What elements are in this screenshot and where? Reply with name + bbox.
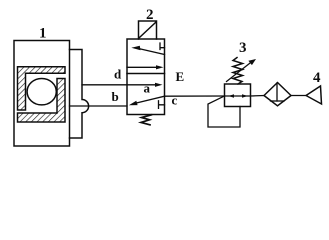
valve position divider xyxy=(127,73,165,75)
valve top position diagonal arrow xyxy=(138,48,165,54)
svg-text:c: c xyxy=(172,93,178,108)
valve actuator plunger 2 xyxy=(139,21,157,39)
ball workpiece xyxy=(27,79,56,105)
svg-text:2: 2 xyxy=(146,7,154,23)
wire: regulator to filter xyxy=(251,95,265,98)
valve bottom position horizontal arrow (d to E) xyxy=(127,84,156,86)
regulator pilot loop xyxy=(208,96,240,127)
svg-text:4: 4 xyxy=(313,70,321,86)
regulator left arrowhead xyxy=(228,94,234,98)
regulator spring xyxy=(233,58,243,85)
valve top blocked port xyxy=(160,43,165,50)
air source triangle 4 xyxy=(306,86,322,104)
wire b xyxy=(70,105,128,107)
regulator right arrowhead xyxy=(242,94,248,98)
regulator internal flow line xyxy=(225,95,251,97)
svg-text:1: 1 xyxy=(39,26,47,42)
clamp top hatched jaw xyxy=(18,67,66,110)
clamp bottom hatched jaw xyxy=(18,79,66,123)
svg-text:a: a xyxy=(144,81,151,96)
valve return spring xyxy=(141,115,152,125)
valve top position horizontal arrow xyxy=(127,66,157,68)
clamp manifold block xyxy=(70,50,89,139)
filter center line xyxy=(276,83,278,101)
regulator 3 body xyxy=(225,84,251,107)
wire: filter to source xyxy=(291,95,306,97)
wire c: valve to regulator xyxy=(165,95,225,97)
regulator adjustment arrow xyxy=(227,62,252,81)
valve bottom blocked port xyxy=(159,101,165,109)
clamp cylinder 1 outer body xyxy=(14,41,70,147)
valve bottom position diagonal arrow (c to b) xyxy=(137,96,165,103)
wire d xyxy=(82,84,127,86)
filter water trap chord xyxy=(271,100,285,102)
filter body diamond xyxy=(264,83,291,106)
svg-text:b: b xyxy=(112,89,119,104)
valve 2 body xyxy=(127,39,165,115)
svg-text:d: d xyxy=(114,66,122,81)
svg-text:E: E xyxy=(176,69,185,84)
svg-text:3: 3 xyxy=(239,40,247,56)
